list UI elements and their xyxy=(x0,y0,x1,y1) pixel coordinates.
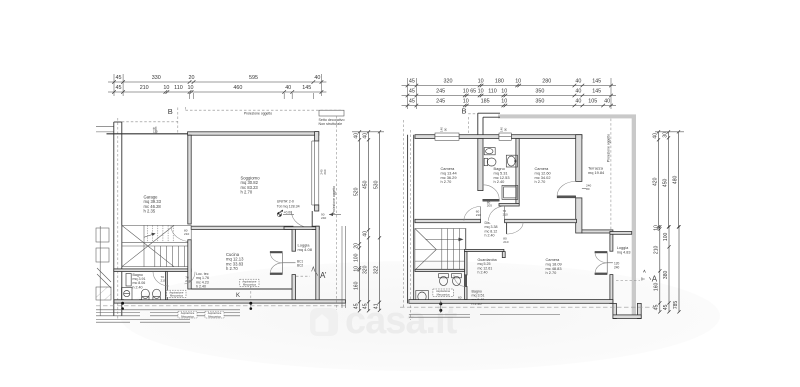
svg-text:320: 320 xyxy=(362,265,368,274)
svg-text:245: 245 xyxy=(436,99,445,105)
terrazza parapet top (gray) xyxy=(498,114,636,118)
svg-text:210: 210 xyxy=(476,213,481,217)
svg-text:80: 80 xyxy=(586,187,590,191)
bagno2 door leaf + arc xyxy=(464,275,466,287)
bottom wall right plan xyxy=(409,300,613,304)
bagno fixtures: shower xyxy=(122,288,133,300)
svg-text:40: 40 xyxy=(575,99,581,105)
door to loc.tec arc xyxy=(184,272,195,284)
door soggiorno-loggia: swing arc xyxy=(292,212,313,229)
svg-text:h 2.40: h 2.40 xyxy=(494,179,506,184)
loggia french door leaves xyxy=(270,251,282,253)
top wall right plan xyxy=(415,135,435,139)
guardaroba top wall xyxy=(465,249,504,251)
level marker +0.00 xyxy=(277,210,294,217)
bagno fixtures: bidet xyxy=(153,289,161,298)
svg-text:h 2.70: h 2.70 xyxy=(226,266,238,271)
camera2 right wall upper xyxy=(576,135,582,182)
svg-text:10: 10 xyxy=(463,99,469,105)
svg-text:30: 30 xyxy=(662,132,668,138)
svg-text:Meccanica: Meccanica xyxy=(208,314,221,318)
soggiorno top wall xyxy=(188,132,319,135)
svg-text:40: 40 xyxy=(353,133,359,139)
svg-text:Meccanica: Meccanica xyxy=(170,294,183,298)
bagno bottom wall piece xyxy=(499,204,519,207)
soggiorno window right side xyxy=(312,141,319,205)
door soggiorno-loggia: leaf xyxy=(311,211,313,228)
svg-text:A: A xyxy=(652,274,658,283)
vertical dim chain xyxy=(672,130,680,228)
aspirazione meccanica box 3 xyxy=(433,289,454,296)
svg-text:210: 210 xyxy=(185,279,190,283)
stairs/guardaroba/bagno2 wall xyxy=(465,252,468,275)
svg-text:460: 460 xyxy=(233,85,242,91)
loggia2 top wall xyxy=(610,232,632,235)
svg-text:210: 210 xyxy=(161,279,166,283)
svg-text:45: 45 xyxy=(409,99,415,105)
door leaf + arc to camera3 (80/210) xyxy=(506,223,508,234)
svg-text:41: 41 xyxy=(373,303,379,309)
svg-text:BC2: BC2 xyxy=(297,264,303,268)
svg-text:320: 320 xyxy=(444,79,453,85)
vertical dim chain xyxy=(654,225,662,314)
svg-text:145: 145 xyxy=(592,79,601,85)
svg-text:Meccanica: Meccanica xyxy=(437,292,450,296)
svg-text:210: 210 xyxy=(184,232,189,236)
svg-text:h 2.70: h 2.70 xyxy=(546,270,558,275)
garage top wall xyxy=(107,133,188,135)
svg-text:10: 10 xyxy=(188,85,194,91)
bagno fixtures right plan: sink xyxy=(484,148,495,155)
svg-text:450: 450 xyxy=(362,180,368,189)
svg-text:450: 450 xyxy=(662,179,668,188)
bagno tall cabinet xyxy=(126,274,131,287)
dim extension lines left plan xyxy=(114,74,321,96)
vertical dim chain xyxy=(362,130,370,312)
svg-text:90: 90 xyxy=(443,128,447,132)
svg-text:Non strutturale: Non strutturale xyxy=(319,122,343,126)
svg-text:K: K xyxy=(236,293,240,299)
stairs left plan xyxy=(122,225,191,266)
window 1 top wall xyxy=(435,133,459,140)
aspirazione meccanica box 1 xyxy=(167,290,186,297)
camera3/loggia wall xyxy=(610,232,613,252)
stairs landing lines xyxy=(122,241,191,243)
middle wall right plan xyxy=(415,219,481,222)
door arc dis-camera1 (60/210) xyxy=(480,207,482,220)
lower partial walls right plan xyxy=(409,315,560,318)
bagno/loc.tec partition xyxy=(165,272,167,300)
neighbour unit fragments at left edge xyxy=(96,226,111,316)
svg-text:160: 160 xyxy=(353,281,359,290)
svg-text:110: 110 xyxy=(174,85,183,91)
dashed leader from aspirazione box xyxy=(250,287,252,309)
svg-text:10: 10 xyxy=(463,89,469,95)
loggia2 bottom xyxy=(613,303,617,318)
svg-text:10: 10 xyxy=(353,266,359,272)
svg-text:160: 160 xyxy=(654,283,660,292)
svg-text:10: 10 xyxy=(515,79,521,85)
dimension row R1 xyxy=(402,79,617,88)
svg-text:785: 785 xyxy=(673,301,679,310)
svg-text:65: 65 xyxy=(470,89,476,95)
svg-text:90: 90 xyxy=(503,128,507,132)
svg-text:280: 280 xyxy=(542,79,551,85)
svg-text:45: 45 xyxy=(409,89,415,95)
svg-text:260: 260 xyxy=(323,169,327,174)
aspirazione meccanica box 2 xyxy=(240,279,259,286)
svg-text:105: 105 xyxy=(588,99,597,105)
loggia2 french door leaves xyxy=(595,251,607,253)
svg-text:180: 180 xyxy=(495,79,504,85)
bagno right wall xyxy=(516,139,519,204)
svg-text:330: 330 xyxy=(152,75,161,81)
stairs right plan xyxy=(415,229,466,271)
svg-text:210: 210 xyxy=(140,85,149,91)
svg-text:240: 240 xyxy=(321,216,326,220)
bagno2 fixtures: bathtub xyxy=(416,291,429,304)
vertical dim chain xyxy=(663,225,671,313)
svg-text:45: 45 xyxy=(116,85,122,91)
svg-text:240: 240 xyxy=(614,266,620,270)
section line A (right plan) xyxy=(616,280,640,282)
svg-text:h 2.70: h 2.70 xyxy=(441,179,453,184)
camera1/bagno wall xyxy=(478,139,483,191)
svg-text:322: 322 xyxy=(373,266,379,275)
watermark casa.it logo icon xyxy=(310,308,338,336)
svg-text:40: 40 xyxy=(362,133,368,139)
loggia2 french door arcs xyxy=(595,253,607,263)
guardaroba right stub xyxy=(502,252,505,258)
wall post dots xyxy=(121,299,124,302)
svg-text:B: B xyxy=(462,107,467,116)
svg-text:245: 245 xyxy=(436,89,445,95)
door arc dis right (70/210) xyxy=(504,206,506,219)
svg-text:h 2.35: h 2.35 xyxy=(144,209,156,214)
svg-text:210: 210 xyxy=(654,246,660,255)
door garage-cucina leaf arc (80/210) xyxy=(171,226,191,242)
soggiorno right wall between window and door xyxy=(315,205,319,211)
vertical dim chain xyxy=(353,130,361,312)
faint aspirazione boxes below xyxy=(178,311,197,318)
vent symbol on garage wall xyxy=(155,127,157,135)
soggiorno right wall upper xyxy=(315,132,319,141)
bagno fixtures right plan: bathtub xyxy=(506,155,517,167)
wall jog to loggia xyxy=(582,230,613,233)
svg-text:45: 45 xyxy=(116,75,122,81)
svg-text:10: 10 xyxy=(501,99,507,105)
bagno fixtures: wc xyxy=(141,289,149,298)
dimension row R2 xyxy=(402,89,617,98)
corridor K top line xyxy=(191,288,292,290)
bottom wall left plan xyxy=(114,300,346,303)
wall under stairs xyxy=(114,269,191,272)
svg-text:+0.00: +0.00 xyxy=(284,211,293,215)
stairs lower flight treads xyxy=(155,246,190,267)
svg-text:Meccanica: Meccanica xyxy=(181,314,194,318)
svg-text:145: 145 xyxy=(302,85,311,91)
svg-text:B: B xyxy=(168,107,173,116)
svg-text:20: 20 xyxy=(353,243,359,249)
svg-text:20: 20 xyxy=(189,75,195,81)
stairs upper flight (dotted treads) xyxy=(148,225,174,242)
loggia left wall xyxy=(292,229,296,251)
svg-text:530: 530 xyxy=(373,180,379,189)
svg-text:350: 350 xyxy=(535,89,544,95)
svg-text:100: 100 xyxy=(663,233,669,242)
svg-text:45: 45 xyxy=(663,304,669,310)
svg-text:40: 40 xyxy=(575,89,581,95)
svg-text:350: 350 xyxy=(535,99,544,105)
chain top connector xyxy=(352,131,384,133)
svg-text:Meccanica: Meccanica xyxy=(243,283,256,287)
door to bagno arc xyxy=(153,272,169,286)
vertical dim chain xyxy=(652,130,660,228)
soggiorno bottom / loggia top wall xyxy=(191,226,293,229)
stairs right arrow xyxy=(425,238,461,240)
projection dashed vertical right of left plan xyxy=(336,116,338,310)
svg-text:40: 40 xyxy=(362,231,368,237)
svg-text:mq 4.83: mq 4.83 xyxy=(617,251,631,255)
svg-text:210: 210 xyxy=(503,213,508,217)
svg-text:10: 10 xyxy=(501,89,507,95)
svg-text:10: 10 xyxy=(163,85,169,91)
terrazza parapet right (gray) xyxy=(632,115,636,319)
svg-text:A’: A’ xyxy=(320,271,327,280)
svg-text:45: 45 xyxy=(409,79,415,85)
section line A-A (left plan) xyxy=(296,275,310,277)
svg-text:h 2.40: h 2.40 xyxy=(485,234,495,238)
svg-text:520: 520 xyxy=(353,187,359,196)
chain top connector right xyxy=(655,131,684,133)
svg-text:145: 145 xyxy=(592,89,601,95)
svg-text:45: 45 xyxy=(654,304,660,310)
dashed projection left of right plan xyxy=(403,120,405,308)
svg-text:mq 4.08: mq 4.08 xyxy=(298,247,313,252)
dashed projection lines top (left plan) xyxy=(122,121,178,123)
svg-text:120: 120 xyxy=(153,130,158,134)
party wall left (double line) xyxy=(114,118,122,320)
svg-text:205: 205 xyxy=(487,204,492,208)
svg-text:40: 40 xyxy=(314,75,320,81)
dimension row L2 xyxy=(108,85,326,94)
thin outline lines right of left plan xyxy=(341,226,343,308)
svg-text:420: 420 xyxy=(652,177,658,186)
lowest faint fragments xyxy=(96,320,190,323)
svg-text:40: 40 xyxy=(652,133,658,139)
vertical dim chain xyxy=(673,225,681,313)
shower box right plan xyxy=(502,185,518,199)
bagno door leaf + arc xyxy=(483,199,499,201)
centerline dashed bottom (right) xyxy=(400,306,655,308)
wall stub above top wall (L-shape) xyxy=(478,113,500,135)
garage/soggiorno partition wall xyxy=(188,135,191,224)
svg-text:Loggia: Loggia xyxy=(617,246,629,250)
svg-text:40: 40 xyxy=(575,79,581,85)
window 2 top wall xyxy=(499,133,511,140)
terrazza door leaf + arc xyxy=(557,196,576,198)
svg-text:h 2.40: h 2.40 xyxy=(196,285,206,289)
svg-text:Proiezione oggetto: Proiezione oggetto xyxy=(244,112,272,116)
svg-text:Tot mq 128.34: Tot mq 128.34 xyxy=(277,204,300,208)
bagno2 fixtures: basins xyxy=(439,274,449,278)
dimension row L1 xyxy=(108,75,326,84)
under-stairs wall right plan xyxy=(415,269,465,271)
setto decorativo rectangle xyxy=(319,110,344,116)
centerline dashed bottom (left) xyxy=(96,305,346,307)
loggia right wall xyxy=(316,226,319,303)
svg-text:h 2.70: h 2.70 xyxy=(535,179,547,184)
stairs up arrow xyxy=(144,234,155,238)
cucina left wall segment xyxy=(188,240,191,289)
svg-text:40: 40 xyxy=(604,99,610,105)
svg-text:40: 40 xyxy=(285,85,291,91)
svg-text:h 2.40: h 2.40 xyxy=(478,271,488,275)
svg-text:380: 380 xyxy=(663,271,669,280)
svg-text:210: 210 xyxy=(503,240,508,244)
svg-text:Proiezione oggetto: Proiezione oggetto xyxy=(606,134,610,162)
svg-text:mq 19.84: mq 19.84 xyxy=(588,170,605,175)
svg-text:h 2.70: h 2.70 xyxy=(241,190,253,195)
svg-text:h 2.40: h 2.40 xyxy=(133,285,143,289)
dimension row R3 xyxy=(402,99,617,108)
svg-text:480: 480 xyxy=(672,176,678,185)
vertical dim chain xyxy=(373,130,381,312)
svg-text:185: 185 xyxy=(481,99,490,105)
loggia french door arcs xyxy=(270,253,282,263)
lower partial walls (unit below, left plan) xyxy=(96,310,240,316)
svg-text:100: 100 xyxy=(353,253,359,262)
neighbour wall stubs top-left xyxy=(96,125,114,127)
proiezione dashed in terrazza xyxy=(610,119,612,232)
svg-text:45: 45 xyxy=(362,303,368,309)
dim extension lines right plan xyxy=(408,78,612,109)
svg-text:UNITA’ 2-0: UNITA’ 2-0 xyxy=(277,200,294,204)
svg-text:10: 10 xyxy=(478,89,484,95)
bagno fixtures right plan: wc xyxy=(484,158,487,165)
svg-text:10: 10 xyxy=(478,79,484,85)
svg-text:595: 595 xyxy=(249,75,258,81)
vertical dim chain xyxy=(662,130,670,228)
svg-text:Proiezione oggetto: Proiezione oggetto xyxy=(332,186,336,214)
svg-text:45: 45 xyxy=(353,303,359,309)
party wall right plan (double line) xyxy=(408,130,414,320)
svg-text:110: 110 xyxy=(488,89,497,95)
svg-text:10: 10 xyxy=(654,225,660,231)
